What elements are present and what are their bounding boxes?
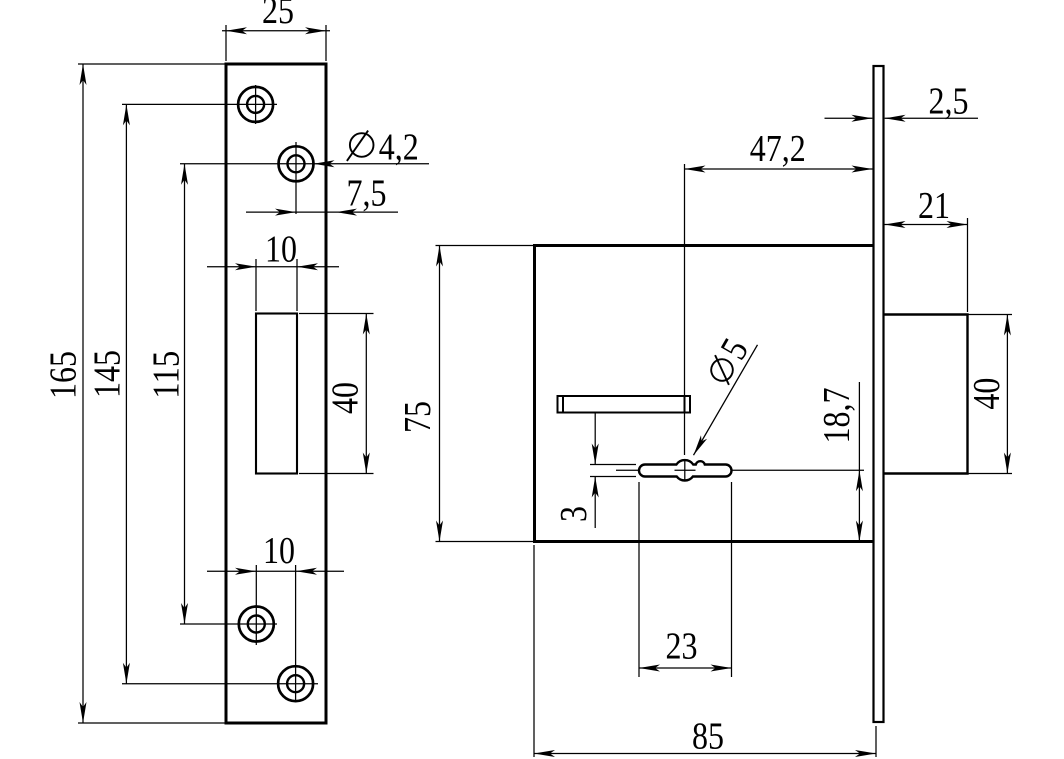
svg-text:25: 25 xyxy=(262,0,294,32)
svg-text:40: 40 xyxy=(966,378,1008,410)
svg-text:40: 40 xyxy=(325,382,367,414)
svg-text:7,5: 7,5 xyxy=(347,173,387,215)
svg-text:47,2: 47,2 xyxy=(750,128,806,170)
svg-text:2,5: 2,5 xyxy=(929,81,969,123)
svg-text:3: 3 xyxy=(553,506,595,522)
svg-text:23: 23 xyxy=(666,626,698,668)
svg-text:165: 165 xyxy=(43,351,85,399)
svg-text:145: 145 xyxy=(87,350,129,398)
svg-text:75: 75 xyxy=(397,401,439,433)
svg-text:21: 21 xyxy=(918,185,950,227)
svg-text:115: 115 xyxy=(146,351,188,399)
svg-text:18,7: 18,7 xyxy=(816,388,858,444)
svg-text:10: 10 xyxy=(265,229,297,271)
svg-text:4,2: 4,2 xyxy=(379,127,419,169)
svg-text:10: 10 xyxy=(263,530,295,572)
svg-text:85: 85 xyxy=(692,716,724,758)
